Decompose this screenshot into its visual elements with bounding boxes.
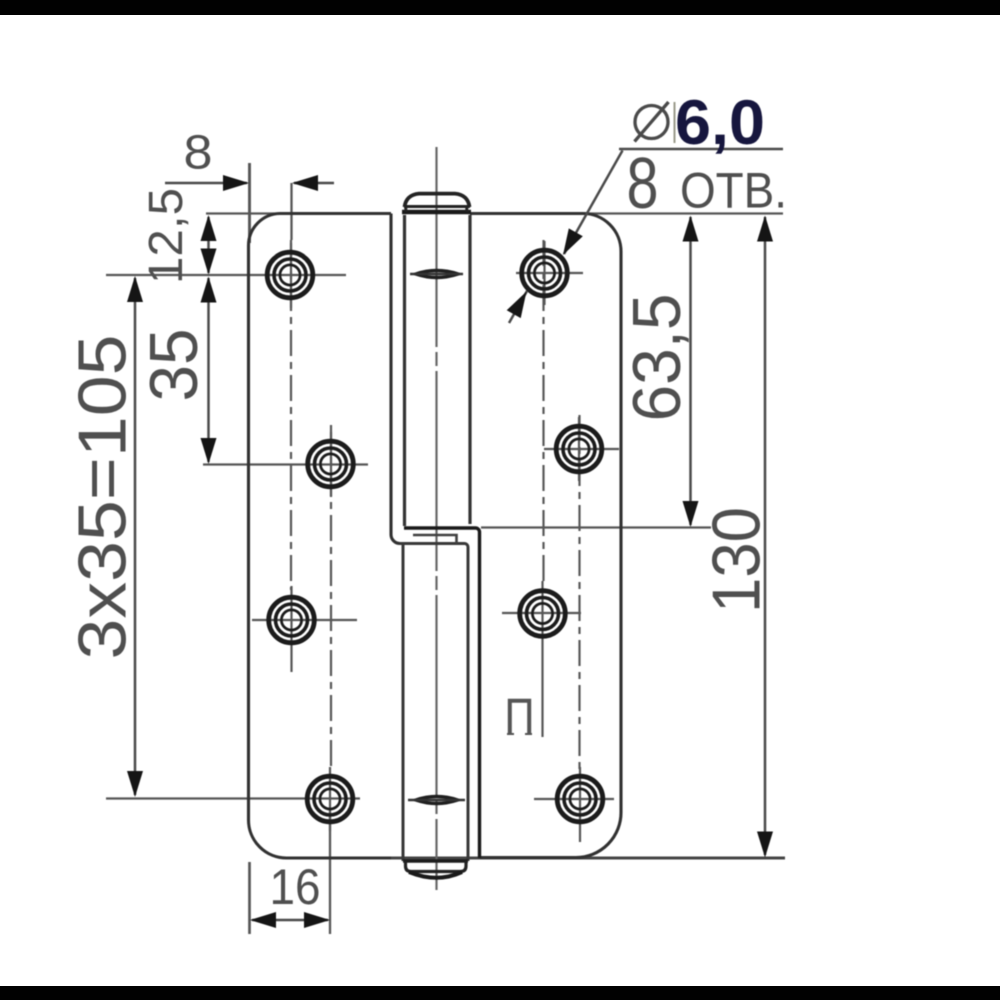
svg-text:63,5: 63,5 bbox=[619, 294, 695, 422]
svg-text:8: 8 bbox=[627, 144, 659, 224]
svg-text:12,5: 12,5 bbox=[140, 188, 193, 284]
svg-text:35: 35 bbox=[136, 329, 212, 402]
svg-text:8: 8 bbox=[184, 127, 213, 180]
svg-text:ОТВ.: ОТВ. bbox=[680, 162, 787, 219]
svg-text:130: 130 bbox=[699, 507, 775, 613]
svg-text:16: 16 bbox=[270, 859, 321, 915]
svg-text:6,0: 6,0 bbox=[675, 88, 765, 158]
svg-text:3x35=105: 3x35=105 bbox=[65, 335, 141, 660]
